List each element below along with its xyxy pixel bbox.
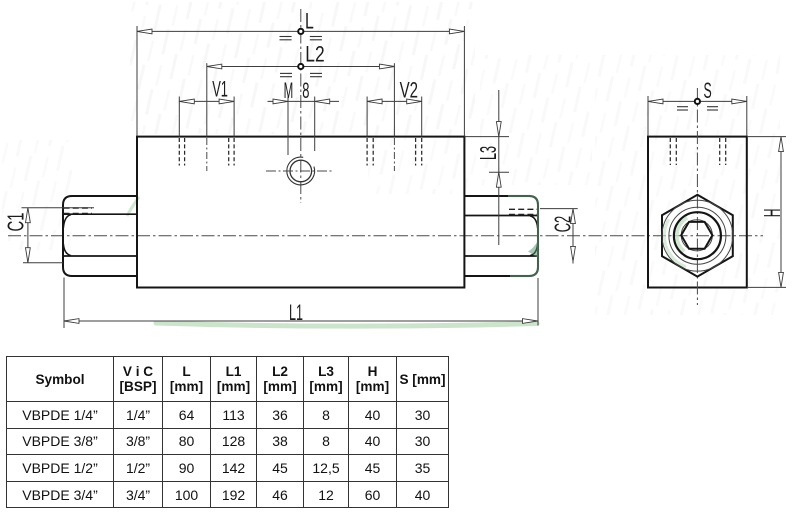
dim L2 line	[207, 66, 395, 68]
dim S line	[648, 100, 747, 102]
dim V2 line	[367, 100, 422, 102]
svg-text:L2: L2	[305, 42, 324, 67]
hex nut end view	[662, 195, 733, 277]
dim L2 symmetry marker circle	[298, 64, 303, 69]
port V2 centerline	[393, 138, 395, 171]
dim L line	[137, 30, 464, 32]
dim L symmetry marker circle	[298, 29, 303, 34]
dim S symmetry marker circle	[695, 99, 700, 104]
watermark green crescent in end view	[677, 218, 687, 252]
dim M8 extension lines	[287, 97, 289, 156]
dim L2 extension lines	[206, 63, 208, 136]
M8 hole inner circle	[290, 160, 312, 182]
side view body rect	[648, 137, 747, 288]
hex socket	[681, 222, 712, 249]
svg-text:V2: V2	[400, 77, 418, 102]
svg-text:V1: V1	[212, 76, 228, 101]
watermark green swoosh bottom lens	[156, 323, 537, 326]
hex inscribed circle	[662, 200, 733, 271]
faint gray watermark texture	[130, 2, 475, 134]
horizontal centerline	[8, 235, 763, 237]
port V2 hidden thread lines	[367, 138, 422, 166]
plug chamfer circle	[669, 207, 726, 264]
right nut thread hidden lines	[509, 208, 538, 210]
specifications table	[6, 356, 449, 508]
left nut chamfer arcs	[63, 215, 71, 228]
valve body front view	[137, 137, 464, 288]
left nut hex flat lines	[64, 213, 138, 215]
svg-text:8: 8	[302, 78, 309, 103]
watermark green tint on right nut	[508, 196, 538, 276]
right nut hex flat lines	[464, 215, 537, 217]
svg-text:L: L	[305, 8, 314, 33]
dim S extension lines	[647, 96, 649, 136]
dim L3 lower extension line	[489, 171, 509, 173]
front view vertical centerline	[300, 9, 302, 203]
svg-text:L3: L3	[475, 146, 501, 160]
dim L equality marks	[280, 37, 322, 40]
dim V1 line	[179, 100, 234, 102]
port V1 hidden thread lines	[179, 138, 234, 166]
M8 hole horizontal crosshair	[266, 170, 333, 172]
right nut chamfer arcs	[530, 216, 538, 228]
dim C1 line	[27, 208, 29, 263]
side view port hidden lines	[670, 138, 725, 165]
dim S equality marks	[677, 107, 718, 110]
svg-text:H: H	[759, 209, 785, 218]
port V1 centerline	[206, 138, 208, 171]
dim H line	[780, 137, 782, 288]
svg-text:C1: C1	[3, 213, 29, 232]
watermark green streak left of body	[127, 197, 139, 216]
dim C2 extension line	[540, 208, 578, 210]
svg-text:C2: C2	[549, 216, 575, 233]
left nut thread hidden lines	[64, 207, 93, 209]
side view vertical centerline	[696, 88, 698, 305]
dim H extension lines	[748, 136, 786, 138]
dim C2 line	[572, 209, 574, 264]
dim L extension lines	[136, 26, 138, 136]
dim L2 equality marks	[280, 73, 322, 76]
dim C1 extension lines	[22, 207, 95, 209]
dim M8 line and outside arrows	[268, 100, 315, 102]
dim L3 top extension line	[464, 136, 509, 138]
dim V2 extension lines	[366, 97, 368, 137]
svg-text:L1: L1	[289, 300, 303, 325]
socket circumscribed circle	[681, 220, 712, 251]
left plug nut outline	[63, 196, 137, 276]
svg-text:S: S	[704, 78, 712, 103]
svg-text:M: M	[284, 78, 294, 103]
dim L1 extension lines	[63, 278, 65, 329]
dim V1 extension lines	[178, 97, 180, 137]
dim L1 line	[64, 320, 538, 322]
right plug nut outline	[464, 196, 538, 276]
plug outer bold circle	[674, 212, 721, 259]
M8 thread outer arc	[287, 157, 315, 185]
dim L3 line	[498, 90, 500, 245]
